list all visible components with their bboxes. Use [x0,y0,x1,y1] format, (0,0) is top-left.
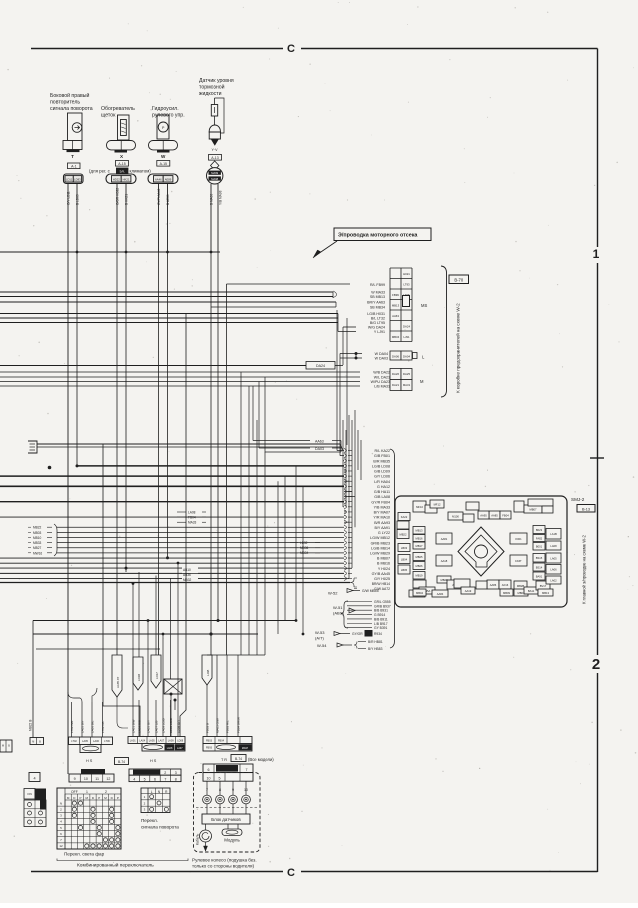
svg-text:Y/B MA33: Y/B MA33 [374,505,390,509]
svg-text:A-15: A-15 [118,162,125,166]
bundle verticals near MS [332,292,334,298]
wire BR/Y AA63 [0,301,336,303]
svg-text:MB04: MB04 [416,591,424,595]
svg-text:LA06: LA06 [93,740,99,743]
svg-text:P: P [117,796,119,800]
wire G/Y LD11 drop [67,184,69,253]
svg-text:MB17: MB17 [415,544,423,548]
svg-text:AB36: AB36 [183,573,191,577]
connector strip TR [203,764,253,773]
svg-text:Боковой правый: Боковой правый [50,92,89,99]
svg-text:L/R HA04: L/R HA04 [374,480,390,484]
svg-text:FB93 R/L: FB93 R/L [226,720,230,733]
svg-text:AA18: AA18 [441,559,448,563]
wire W/G DA24 [343,326,356,328]
label B-74 left [115,758,129,765]
wire vertical x33 [32,621,34,738]
wire vertical x218 [217,252,219,620]
svg-text:9: 9 [74,777,76,781]
svg-text:A-13: A-13 [211,156,218,160]
svg-text:W/B DA22: W/B DA22 [373,371,390,375]
SMJ central guide diamond [458,527,504,576]
svg-text:повторитель: повторитель [50,100,80,106]
wire vertical x296 [295,466,297,621]
svg-text:LA08: LA08 [188,510,196,514]
svg-text:BA91: BA91 [536,574,543,578]
connector block SMJ-2 outline [395,496,567,607]
wire from left connector [37,446,342,448]
svg-text:AA46: AA46 [155,178,162,182]
svg-text:A-1: A-1 [71,165,77,169]
sensor bypass wire [215,98,225,133]
bus wire y444 [37,443,340,445]
svg-text:R934: R934 [374,632,382,636]
svg-text:LG/W MB12: LG/W MB12 [370,536,390,540]
svg-text:MB36: MB36 [300,546,309,550]
left contact table [24,800,46,827]
inline label AA63 [253,440,310,442]
svg-text:LA06 B/L: LA06 B/L [91,720,95,733]
svg-text:HK21: HK21 [123,178,130,182]
svg-text:MF12: MF12 [434,502,441,506]
connector code A-15 [116,161,129,167]
svg-text:P: P [80,796,82,800]
svg-text:W DA03: W DA03 [375,357,388,361]
wire vertical x126 [125,252,127,572]
svg-text:LA07 L/B: LA07 L/B [155,721,159,733]
wire vertical x103 [103,444,140,737]
svg-text:Блок датчиков: Блок датчиков [211,817,241,822]
wire W DA03 [340,357,362,359]
svg-text:DA26: DA26 [392,372,399,376]
svg-text:жидкости: жидкости [199,91,222,97]
svg-text:LA09: LA09 [168,740,174,743]
svg-text:Y LJ91: Y LJ91 [374,330,385,334]
relay box with X [164,679,182,694]
svg-text:Перекл. света фар: Перекл. света фар [64,852,105,857]
svg-text:C: C [287,43,295,55]
svg-text:T R: T R [221,758,227,762]
svg-text:MB10: MB10 [33,536,42,540]
svg-text:B-70: B-70 [454,278,464,283]
svg-text:FB93: FB93 [206,747,213,750]
svg-text:LA05 B/Y: LA05 B/Y [81,720,85,733]
resistor R heater body [118,115,130,140]
bus wire y620 [33,620,296,622]
svg-text:MB27: MB27 [33,546,42,550]
svg-text:LT02 B/R: LT02 B/R [70,720,74,733]
wire vertical x77 [76,252,78,465]
svg-text:(Все модели): (Все модели) [248,757,274,762]
svg-text:MB22: MB22 [33,526,42,530]
svg-text:M: M [420,379,424,384]
svg-text:MB13: MB13 [415,529,423,533]
svg-text:MB34: MB34 [300,551,309,555]
svg-text:B-74: B-74 [235,757,242,761]
svg-text:LA06: LA06 [550,568,557,572]
svg-text:W/L DA21: W/L DA21 [374,376,390,380]
wire vertical x285 [284,476,286,620]
dashed separator [196,807,258,809]
wire W/PU DA23 [0,381,360,383]
svg-text:LA07: LA07 [177,747,183,750]
svg-text:W-53: W-53 [315,630,325,635]
tag LD17 a [151,655,161,688]
svg-text:(для рег. с: (для рег. с [89,168,111,173]
svg-text:KA22: KA22 [401,515,408,519]
svg-text:AA85·87: AA85·87 [116,676,120,688]
svg-text:B MB16: B MB16 [377,562,390,566]
svg-text:MB16: MB16 [415,536,423,540]
svg-text:H S: H S [86,759,93,763]
frame section line C-C top [31,48,283,50]
wire vertical x68 long [67,252,69,774]
svg-text:MA33: MA33 [188,521,197,525]
junction mark [48,466,52,470]
svg-text:GY/R AA46: GY/R AA46 [157,188,161,205]
svg-text:LA1B: LA1B [550,532,557,536]
svg-text:MB19: MB19 [415,574,423,578]
connector block MS grid [390,267,412,269]
svg-text:MB32: MB32 [183,578,192,582]
svg-text:MB25: MB25 [415,555,423,559]
lamp M1 side turn repeater body [68,113,83,141]
svg-text:MB26: MB26 [415,564,423,568]
svg-text:B/L LT32: B/L LT32 [371,317,385,321]
svg-text:AA81: AA81 [441,537,448,541]
connector strip L [69,737,113,745]
svg-text:Y·V: Y·V [212,148,219,152]
svg-text:MB22: MB22 [399,532,407,536]
svg-text:Модуль: Модуль [224,838,240,843]
wire bends from M block to AA63 [252,386,254,441]
svg-text:MB33: MB33 [33,541,42,545]
wire G/OR HD22 drop [116,184,118,253]
svg-text:тормозной: тормозной [199,84,225,91]
svg-text:W-52: W-52 [328,591,338,596]
tag1 stub below [117,697,128,728]
svg-text:щеток: щеток [101,113,116,119]
svg-text:LT02: LT02 [71,740,77,743]
feeder verticals for strip M [132,584,134,701]
svg-text:T: T [71,154,74,159]
svg-text:DA21: DA21 [392,383,399,387]
tag LD1B [133,657,143,690]
svg-text:Кабель: Кабель [196,833,200,845]
svg-text:BS14: BS14 [536,565,543,569]
wire B HK21 drop [125,184,127,253]
svg-text:L: L [151,790,153,794]
left on-off header [24,789,35,800]
svg-text:6: 6 [208,768,210,772]
svg-text:MB03: MB03 [33,531,42,535]
svg-text:DA03: DA03 [315,447,324,451]
callout engine compartment wiring [334,228,431,241]
svg-text:FB03 B: FB03 B [206,723,210,733]
wire B MA99 drop [210,184,212,252]
switch table headlight [57,788,121,849]
svg-text:MA98: MA98 [211,177,218,181]
left edge connector 3-pin [28,441,37,453]
svg-text:LD06 LG/B: LD06 LG/B [169,718,173,733]
svg-text:LB05: LB05 [401,568,408,572]
svg-text:B001: B001 [536,545,543,549]
svg-text:7: 7 [246,768,248,772]
svg-text:сигнала поворота: сигнала поворота [50,106,93,112]
svg-text:B/G LT95: B/G LT95 [370,321,385,325]
svg-text:LG/B MB14: LG/B MB14 [371,546,390,550]
connector block L [390,351,401,360]
extra row BR/W HB14 thick feed [0,582,350,584]
wire SB MB13 [0,296,333,298]
svg-text:FB04: FB04 [218,740,225,743]
connector strip M [128,737,185,744]
junction dots on buses [166,556,169,559]
svg-text:4: 4 [133,777,135,781]
svg-text:10: 10 [207,776,211,780]
svg-text:H021: H021 [403,272,410,276]
wire vertical x257 [256,420,258,655]
connector code A-1 [68,163,81,169]
svg-text:AA63: AA63 [392,314,399,318]
brake fluid level switch [214,98,216,105]
svg-text:G/Y H025: G/Y H025 [374,577,390,581]
wire W/B DA22 [0,371,360,373]
svg-text:LG/W MB29: LG/W MB29 [370,552,390,556]
wire GY/R AA46 drop [158,184,160,253]
svg-text:ON: ON [27,792,32,796]
svg-text:MA99: MA99 [211,171,218,175]
wire B/G LT95 [0,322,338,324]
svg-text:GY/B AA45: GY/B AA45 [372,572,390,576]
wire vertical x186 [180,314,186,738]
svg-text:R/L FB99: R/L FB99 [370,283,385,287]
svg-text:DA25: DA25 [403,372,410,376]
svg-text:7: 7 [164,777,166,781]
wire R/L FB99 [227,283,351,285]
svg-text:GY/R FB04: GY/R FB04 [371,500,390,504]
wire vertical x249 [248,386,250,655]
svg-text:FA82: FA82 [536,536,543,540]
connector HD22/HK21 [106,174,136,183]
svg-text:H S: H S [150,759,157,763]
pin strip right 1-8 [129,769,181,775]
svg-text:FB04: FB04 [188,516,196,520]
pump motor body [157,115,169,139]
svg-text:C: C [287,867,295,879]
svg-text:LD1B: LD1B [137,674,141,681]
svg-text:LA01 B/W: LA01 B/W [132,719,136,733]
wire W DA04 [340,353,362,355]
svg-text:2: 2 [105,790,107,794]
svg-text:AA86: AA86 [490,583,497,587]
svg-text:12: 12 [106,777,110,781]
svg-text:AA95: AA95 [480,513,487,517]
svg-text:K001: K001 [515,537,522,541]
pin strip left 9-12 [81,769,105,774]
svg-text:W DA04: W DA04 [375,352,388,356]
clockspring spiral symbol [200,830,212,842]
svg-text:AA19: AA19 [465,589,472,593]
wire vertical x211 to junction [210,252,212,655]
svg-text:LA05: LA05 [82,740,88,743]
steering wheel dashed box [194,773,261,853]
wire vertical x303 [302,486,304,634]
svg-text:LA04: LA04 [139,740,145,743]
svg-text:LD17: LD17 [155,672,159,679]
wire Y/B MA98 drop [217,184,219,252]
svg-text:LD09 G/Y: LD09 G/Y [177,720,181,733]
left 2-cell connector [30,738,44,745]
svg-text:B-74: B-74 [118,760,125,764]
wires into strip R [216,655,218,737]
wire vertical x167 [167,252,169,557]
short feed verticals above list [336,310,338,451]
svg-text:G LY22: G LY22 [378,531,390,535]
wire vertical x117 [116,252,118,655]
connector block M [390,369,401,380]
svg-text:LG/B H031: LG/B H031 [367,312,385,316]
svg-text:G/B LD09: G/B LD09 [374,470,390,474]
wire SB MB34 [211,306,336,308]
wire vertical x158 [158,252,160,655]
left small cell 4 [29,773,40,782]
svg-text:MB2B: MB2B [517,584,525,588]
svg-text:LT06: LT06 [104,740,110,743]
callout arrow [315,241,337,256]
svg-text:12: 12 [59,844,63,848]
clockspring coil contacts [203,795,212,804]
SMJ pin cells [413,501,426,512]
svg-text:LA07: LA07 [158,740,164,743]
svg-text:FB99: FB99 [392,293,399,297]
wire through tag4 [206,685,208,737]
bend wires to strip L [68,692,82,702]
svg-text:LB32: LB32 [300,541,308,545]
svg-text:MB13: MB13 [392,304,400,308]
bus wire y649 [36,648,160,650]
svg-text:B-13: B-13 [582,507,590,511]
svg-text:SB MB34: SB MB34 [370,306,385,310]
svg-text:AA85: AA85 [491,513,498,517]
connector LD11/LD83 [64,174,84,183]
svg-text:К коробке предохранителей на с: К коробке предохранителей на схеме W-2 [455,303,461,393]
svg-text:LA01: LA01 [130,740,136,743]
svg-text:OFF: OFF [71,790,78,794]
svg-text:LD83: LD83 [74,178,81,182]
svg-text:G HA12: G HA12 [377,485,390,489]
connector housing X [107,141,136,150]
svg-text:MA03 G/W: MA03 G/W [216,718,220,733]
tag LA08 AA85 AA87 [112,655,122,697]
svg-text:B/R AA93: B/R AA93 [374,521,390,525]
svg-text:Датчик уровня: Датчик уровня [199,78,234,84]
svg-text:LD11: LD11 [66,178,73,182]
bus wire y655 [207,654,265,656]
wire W MA33 [0,291,333,293]
wires into strip M [132,700,134,737]
svg-text:BR/W HB14: BR/W HB14 [372,582,390,586]
svg-text:AB10: AB10 [183,568,191,572]
svg-text:B023: B023 [536,528,543,532]
svg-text:2: 2 [592,656,600,673]
connector strip R [203,737,252,744]
svg-text:MF10: MF10 [416,505,423,509]
svg-text:P: P [98,796,100,800]
svg-text:Y/B MA98: Y/B MA98 [218,190,222,205]
svg-text:(A/T): (A/T) [315,636,325,641]
combination switch brace [57,859,188,861]
svg-text:W/PU DA23: W/PU DA23 [371,380,390,384]
wire vertical x278 [277,481,279,634]
svg-text:W MA33: W MA33 [371,291,385,295]
svg-text:Э/проводка моторного отсека: Э/проводка моторного отсека [338,233,418,239]
lamp symbol [72,123,82,133]
wire vertical x265 [264,452,266,655]
wires with AB inline labels [0,567,182,569]
connector code A-15 b [157,161,170,167]
inline label DA03 [259,447,310,449]
svg-text:LT93: LT93 [403,283,410,287]
svg-text:только со стороны водителя): только со стороны водителя) [192,864,254,869]
svg-text:Рулевое колесо (подушка без.: Рулевое колесо (подушка без. [192,858,257,863]
wire vertical DA feed [355,354,357,359]
svg-text:2: 2 [164,771,166,775]
svg-text:A-15: A-15 [160,162,167,166]
svg-text:11: 11 [95,777,99,781]
junction dot y465 [76,464,79,467]
relay cell inside MS [403,296,410,307]
svg-text:DA24: DA24 [316,364,325,368]
wire list bundle bracket [390,449,395,648]
svg-text:W-54: W-54 [317,643,327,648]
svg-text:LA09 LG/B: LA09 LG/B [162,718,166,733]
label B-70 [449,275,469,284]
svg-text:сигнала поворота: сигнала поворота [141,825,179,830]
wire B/L LT32 [0,317,338,319]
bracket B-70 to fuse box [441,266,447,397]
svg-text:BR/Y AA63: BR/Y AA63 [367,301,385,305]
svg-text:B/Y AA91: B/Y AA91 [374,526,390,530]
svg-text:MA97: MA97 [242,747,249,750]
connector housing W [149,141,178,150]
svg-text:MS: MS [421,303,427,308]
svg-text:1: 1 [593,247,600,261]
svg-text:BA11: BA11 [528,589,535,593]
svg-text:8: 8 [175,777,177,781]
svg-text:GY/OR: GY/OR [352,632,363,636]
svg-text:MW16: MW16 [33,551,42,555]
label B-13 [577,505,595,513]
svg-text:B AE89: B AE89 [166,194,170,205]
switch table contact circles [72,801,76,805]
svg-text:AA84: AA84 [437,592,444,596]
svg-text:B MB07: B MB07 [377,557,390,561]
svg-text:GY B391: GY B391 [374,626,387,630]
bus wire y634 [33,633,258,635]
svg-text:G/B HA11: G/B HA11 [374,490,390,494]
svg-text:MB07: MB07 [529,507,537,511]
wire W/L DA21 [0,376,360,378]
svg-text:AF16: AF16 [502,583,509,587]
svg-text:LJ91: LJ91 [403,335,410,339]
svg-text:LA08: LA08 [550,544,557,548]
svg-text:4: 4 [33,777,35,781]
svg-text:Гидроусил.: Гидроусил. [152,106,179,112]
switch table turn signal [141,788,170,813]
svg-text:GR/B MB23: GR/B MB23 [371,541,390,545]
connector MA99/MA98 round [211,161,219,170]
